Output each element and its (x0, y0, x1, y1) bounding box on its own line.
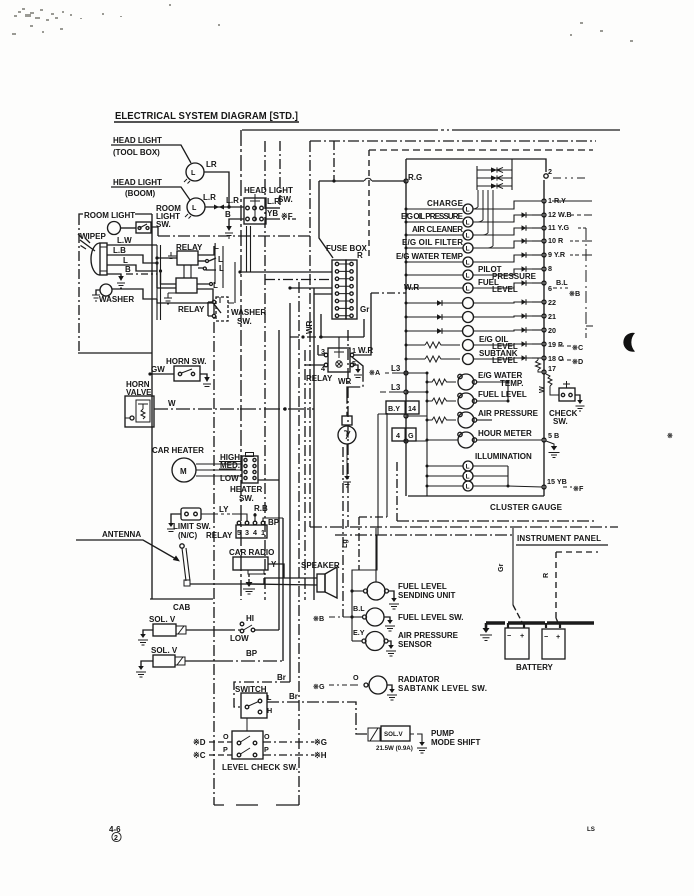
wire illumination to terminal 15 (508, 486, 542, 487)
svg-text:※H: ※H (314, 751, 327, 760)
wiper motor (78, 234, 107, 275)
heater switch connector (230, 453, 279, 504)
svg-text:L: L (466, 273, 470, 280)
svg-text:WIPEP: WIPEP (80, 232, 106, 241)
svg-text:L.W: L.W (117, 236, 132, 245)
page number circled 2 (112, 832, 121, 842)
svg-text:R.G: R.G (408, 173, 422, 182)
wire vertical x348 (347, 330, 349, 527)
svg-text:L: L (466, 246, 470, 253)
room light label (79, 211, 152, 353)
radio relay connector 5341 (206, 521, 267, 540)
battery cell 1 (505, 628, 529, 659)
lamp E/G WATER TEMP (396, 252, 473, 267)
svg-text:L: L (466, 484, 470, 491)
svg-text:SW.: SW. (239, 494, 254, 503)
svg-text:L: L (466, 286, 470, 293)
wire between relays (184, 265, 191, 278)
svg-text:21: 21 (548, 312, 556, 321)
svg-text:L.B: L.B (113, 246, 126, 255)
wire L3 lower (380, 383, 408, 394)
svg-text:WASHER: WASHER (99, 295, 134, 304)
wire relay L bus b (234, 262, 236, 303)
svg-text:※D: ※D (572, 357, 583, 366)
svg-text:R: R (357, 251, 363, 260)
wire vertical bus x241 (240, 130, 242, 600)
node B wire into headlight switch (225, 210, 244, 238)
room light switch (136, 204, 181, 233)
crescent printing mark (623, 333, 635, 352)
svg-text:O: O (353, 673, 359, 682)
wire vertical bus x299 (298, 282, 300, 805)
svg-text:−: − (507, 631, 511, 640)
wire jog at y517 (359, 516, 387, 518)
bracket right of terminals 11-10-9 (552, 201, 593, 338)
air pressure sensor (352, 631, 459, 656)
svg-text:(N/C): (N/C) (178, 531, 197, 540)
wire vertical bus x265 (264, 141, 266, 600)
svg-text:B.Y: B.Y (388, 404, 400, 413)
svg-text:8: 8 (548, 264, 552, 273)
svg-text:CHARGE: CHARGE (427, 199, 464, 208)
svg-text:LOW: LOW (230, 634, 249, 643)
svg-text:L.R: L.R (203, 193, 216, 202)
ground at terminal 5 (546, 441, 554, 446)
ground under radio (243, 574, 255, 594)
svg-text:HEAD LIGHT: HEAD LIGHT (113, 178, 162, 187)
washer switch (208, 297, 266, 326)
svg-text:Br: Br (277, 673, 286, 682)
svg-text:CAR HEATER: CAR HEATER (152, 446, 204, 455)
head light (boom) label (111, 178, 190, 200)
svg-text:G: G (408, 431, 414, 440)
wire inner gauge bus x427 (426, 373, 428, 496)
svg-text:LIMIT SW.: LIMIT SW. (173, 522, 211, 531)
svg-text:※: ※ (667, 432, 673, 440)
svg-text:L: L (466, 260, 470, 267)
svg-text:L: L (192, 203, 197, 212)
svg-text:HI: HI (246, 614, 254, 623)
svg-text:SOL.V: SOL.V (384, 731, 403, 738)
wire Br to switch (234, 673, 290, 707)
wire R to battery (541, 552, 598, 625)
svg-text:AIR PRESSURE: AIR PRESSURE (478, 409, 539, 418)
lamp row 20 (405, 326, 557, 337)
relay lower contact right (197, 281, 218, 303)
lamp headlight toolbox (184, 160, 229, 207)
svg-text:9 Y.R: 9 Y.R (548, 250, 566, 259)
svg-text:BP: BP (246, 649, 258, 658)
svg-text:B.L: B.L (556, 278, 568, 287)
svg-text:19 P: 19 P (548, 340, 563, 349)
svg-text:FUEL LEVEL SW.: FUEL LEVEL SW. (398, 613, 464, 622)
svg-text:L: L (466, 233, 470, 240)
svg-text:W: W (168, 399, 176, 408)
svg-text:SENDING UNIT: SENDING UNIT (398, 591, 455, 600)
wire relay L bus a (222, 246, 224, 288)
fuse box (332, 251, 369, 319)
cigarette lighter (338, 357, 363, 487)
svg-text:L3: L3 (391, 364, 401, 373)
svg-text:MODE SHIFT: MODE SHIFT (431, 738, 480, 747)
svg-text:※B: ※B (313, 614, 324, 623)
wire level check right H (263, 751, 327, 760)
gauge AIR PRESSURE (426, 409, 539, 428)
svg-text:+: + (556, 632, 560, 641)
wire air pressure stub (477, 419, 493, 421)
svg-text:GW: GW (151, 365, 165, 374)
svg-text:SABTANK LEVEL SW.: SABTANK LEVEL SW. (398, 684, 487, 693)
gauge E/G WATER (426, 371, 524, 390)
lamp row 22 (405, 298, 557, 309)
svg-text:HEAD LIGHT: HEAD LIGHT (244, 186, 293, 195)
svg-text:※C: ※C (193, 751, 206, 760)
wire vertical x343 to B.L (342, 447, 344, 617)
wire temp and fuel gauges tie (477, 382, 509, 401)
svg-text:P: P (223, 745, 228, 754)
svg-text:※F: ※F (573, 484, 584, 493)
relay lower (157, 263, 205, 314)
svg-text:CAR RADIO: CAR RADIO (229, 548, 274, 557)
svg-text:WASHER: WASHER (231, 308, 266, 317)
svg-text:TEMP.: TEMP. (500, 379, 523, 388)
svg-text:L: L (466, 207, 470, 214)
svg-text:5: 5 (237, 528, 241, 537)
svg-text:L3: L3 (391, 383, 401, 392)
svg-text:RELAY: RELAY (206, 531, 233, 540)
svg-text:Lg: Lg (340, 539, 349, 548)
svg-text:10 R: 10 R (548, 236, 564, 245)
fuse box label (326, 244, 368, 253)
illumination lamp y476 (426, 471, 509, 481)
svg-text:YB: YB (267, 209, 278, 218)
washer pump (92, 284, 213, 304)
svg-text:20: 20 (548, 326, 556, 335)
svg-text:※D: ※D (193, 738, 206, 747)
wire vertical bus x314 (313, 288, 315, 600)
wire lamp row to terminal 12 (473, 212, 546, 222)
svg-text:SW.: SW. (278, 195, 293, 204)
svg-text:4: 4 (253, 528, 257, 537)
battery ground (480, 623, 492, 641)
antenna label and leader (76, 530, 180, 562)
illumination lamp y486 (426, 481, 509, 491)
wire lamp row to terminal 10 (473, 238, 546, 248)
svg-text:O: O (223, 732, 229, 741)
svg-text:22: 22 (548, 298, 556, 307)
svg-text:SENSOR: SENSOR (398, 640, 432, 649)
wire lamp row to terminal 1 (473, 199, 546, 209)
lamp E/G OIL FILTER (402, 238, 473, 253)
wire verticals below headlight sw (247, 226, 251, 272)
svg-text:15 YB: 15 YB (547, 477, 567, 486)
fuse box input wires (238, 270, 332, 294)
wire loop fuse box to relay (290, 314, 364, 348)
illumination lamp y466 (426, 461, 509, 471)
svg-text:3: 3 (245, 528, 249, 537)
lamp row 19 E/G OIL LEVEL (405, 335, 563, 351)
svg-text:WR: WR (338, 377, 352, 386)
wire L3 upper with A (369, 364, 408, 377)
wire level check right G (263, 738, 327, 747)
wiper wires L.W L.B L B (107, 236, 161, 320)
cluster gauge left bus (405, 159, 407, 496)
svg-text:17: 17 (548, 364, 556, 373)
svg-text:B.L: B.L (353, 604, 365, 613)
svg-text:12 W.B: 12 W.B (548, 210, 572, 219)
cab boundary left (78, 214, 152, 599)
svg-text:P: P (264, 745, 269, 754)
horn valve (125, 380, 154, 427)
check switch (537, 374, 585, 426)
svg-text:E.Y: E.Y (353, 628, 365, 637)
svg-text:L: L (466, 474, 470, 481)
solenoid valve 2 (136, 646, 283, 677)
svg-text:※F: ※F (281, 212, 293, 221)
svg-text:LOW: LOW (220, 474, 239, 483)
wire top bus line B (310, 140, 596, 142)
svg-text:(BOOM): (BOOM) (125, 189, 156, 198)
svg-text:LY: LY (219, 505, 229, 514)
head light (tool box) label (111, 136, 191, 163)
svg-text:1: 1 (261, 528, 265, 537)
switch HI/LOW (230, 614, 279, 643)
lamp row 18 SUBTANK LEVEL (405, 349, 564, 365)
svg-text:※C: ※C (572, 343, 583, 352)
speaker wires (250, 578, 317, 585)
wire washer sw to relay outputs (219, 297, 221, 303)
svg-text:Gr: Gr (360, 305, 369, 314)
relay upper contacts right (198, 242, 224, 273)
wire vertical bus x283 (282, 518, 284, 661)
svg-text:HEATER: HEATER (230, 485, 263, 494)
svg-text:E/G WATER TEMP: E/G WATER TEMP (396, 252, 464, 261)
switch (level) (235, 685, 272, 718)
resistor subtank to terminal 17 (536, 358, 543, 372)
radiator subtank level switch (313, 673, 487, 700)
svg-text:L: L (267, 693, 272, 702)
wire Gr to battery (496, 528, 523, 624)
solenoid valve 1 (138, 615, 230, 645)
svg-text:6: 6 (548, 284, 552, 293)
svg-text:CLUSTER GAUGE: CLUSTER GAUGE (490, 503, 563, 512)
svg-text:LEVEL: LEVEL (492, 356, 518, 365)
relay upper (155, 243, 203, 273)
heater switch labels (219, 453, 242, 483)
svg-text:FUEL LEVEL: FUEL LEVEL (398, 582, 447, 591)
svg-text:R: R (541, 572, 550, 578)
car heater motor (152, 446, 242, 482)
wire W from horn valve (154, 399, 314, 411)
relay (main) (305, 345, 373, 386)
svg-text:WR: WR (305, 320, 314, 334)
svg-text:SW.: SW. (237, 317, 252, 326)
diode box drop wires (478, 190, 493, 246)
svg-text:RELAY: RELAY (306, 374, 333, 383)
wire top bus line C (369, 149, 593, 151)
cluster gauge right bus (543, 180, 545, 496)
svg-text:Gr: Gr (496, 563, 505, 572)
svg-text:※G: ※G (314, 738, 327, 747)
svg-text:LS: LS (587, 826, 595, 833)
gauge HOUR METER (426, 429, 533, 448)
lamp PILOT PRESSURE (405, 265, 537, 281)
svg-text:HOUR METER: HOUR METER (478, 429, 532, 438)
wire BP from relay pin1 (263, 518, 283, 527)
wire vertical headlight sw out x280 top (279, 141, 281, 208)
wire vertical bus x310 instrument panel edge (309, 141, 311, 527)
svg-text:M: M (180, 467, 187, 476)
lamp FUEL LEVEL (405, 278, 518, 294)
wire lamp row to terminal 11 (473, 225, 546, 235)
wire hour meter to terminal 5 (477, 439, 543, 441)
svg-text:※A: ※A (369, 368, 380, 377)
svg-text:SW.: SW. (553, 417, 568, 426)
svg-text:B: B (125, 265, 131, 274)
wire lamp row to terminal 8 (473, 266, 546, 275)
svg-text:+: + (520, 631, 524, 640)
terminal 17 (542, 370, 546, 374)
svg-text:L: L (219, 264, 224, 273)
battery cell 2 (542, 629, 565, 659)
svg-text:ELECTRICAL SYSTEM DIAGRAM [STD: ELECTRICAL SYSTEM DIAGRAM [STD.] (115, 111, 298, 122)
svg-text:HORN SW.: HORN SW. (166, 357, 206, 366)
svg-text:HEAD LIGHT: HEAD LIGHT (113, 136, 162, 145)
svg-text:W.R: W.R (404, 283, 419, 292)
svg-text:RADIATOR: RADIATOR (398, 675, 440, 684)
room light lamp (108, 222, 137, 235)
svg-text:PUMP: PUMP (431, 729, 455, 738)
svg-text:L.R: L.R (267, 197, 280, 206)
illumination right tie (507, 466, 509, 486)
svg-text:BATTERY: BATTERY (516, 663, 554, 672)
horn switch (148, 357, 211, 387)
connector box B.Y 14 (386, 401, 419, 418)
svg-text:L.R: L.R (226, 196, 239, 205)
ground under wiper B (117, 276, 125, 288)
car radio (229, 548, 284, 578)
svg-text:4: 4 (396, 431, 400, 440)
lamp headlight boom (185, 193, 216, 219)
svg-text:2: 2 (548, 167, 552, 176)
svg-text:B: B (225, 210, 231, 219)
svg-text:※G: ※G (313, 682, 325, 691)
wire lamp row to terminal 6 (473, 280, 546, 288)
fuel level sending unit (350, 582, 455, 609)
speaker (301, 561, 340, 598)
svg-text:LR: LR (206, 160, 217, 169)
speckle noise top left (12, 4, 633, 42)
wire B.L / B (313, 604, 365, 623)
svg-text:ROOM LIGHT: ROOM LIGHT (84, 211, 135, 220)
cluster gauge top edge (406, 159, 546, 172)
instrument panel border bottom (310, 527, 618, 545)
lamp E/G OIL PRESSURE (401, 212, 473, 227)
fuse box dashed enclosure edge (368, 150, 370, 259)
svg-text:AIR CLEANER: AIR CLEANER (412, 225, 463, 234)
level check switch (222, 718, 298, 772)
lamp CHARGE (405, 199, 474, 214)
svg-text:SOL. V: SOL. V (151, 646, 178, 655)
svg-text:ILLUMINATION: ILLUMINATION (475, 452, 532, 461)
wire vertical bus x279 (278, 330, 280, 630)
connector box 4 G (392, 428, 416, 443)
svg-text:L: L (218, 255, 223, 264)
wire level check left D (193, 738, 232, 747)
svg-text:18 O: 18 O (548, 354, 564, 363)
fuel level switch (352, 608, 464, 631)
title (114, 111, 299, 122)
svg-text:AIR PRESSURE: AIR PRESSURE (398, 631, 459, 640)
svg-text:ANTENNA: ANTENNA (102, 530, 141, 539)
terminal 2 (544, 174, 548, 178)
limit switch (167, 508, 211, 540)
svg-text:2: 2 (114, 835, 118, 842)
gauge FUEL LEVEL (426, 390, 527, 409)
wire level check left C (193, 751, 232, 760)
svg-text:(TOOL BOX): (TOOL BOX) (113, 148, 160, 157)
svg-text:L: L (466, 464, 470, 471)
svg-text:RELAY: RELAY (178, 305, 205, 314)
wire Lg riser to senders (352, 535, 377, 641)
head light switch HEAD LIGHT SW. (244, 186, 296, 224)
svg-text:5 B: 5 B (548, 431, 559, 440)
lamp row 21 (405, 312, 557, 323)
pump mode shift solenoid (368, 726, 480, 753)
svg-text:※B: ※B (569, 289, 580, 298)
wire room light sw feed (151, 227, 158, 236)
svg-text:21.5W (0.9A): 21.5W (0.9A) (376, 745, 413, 752)
svg-text:L: L (123, 256, 128, 265)
svg-text:FUEL LEVEL: FUEL LEVEL (478, 390, 527, 399)
antenna rod (180, 544, 264, 586)
svg-text:L: L (191, 168, 196, 177)
wire LY limit sw to relay pin (201, 505, 247, 522)
cluster gauge bottom borders (397, 496, 595, 521)
svg-text:R.B: R.B (254, 504, 268, 513)
cab boundary bottom (150, 598, 213, 600)
wire lamp row to terminal 9 (473, 252, 546, 262)
wire top bus line A (242, 129, 620, 131)
svg-text:E/G OIL PRESSURE: E/G OIL PRESSURE (401, 212, 464, 221)
svg-text:L: L (466, 220, 470, 227)
wire from B.Y box down pair (378, 413, 387, 535)
svg-text:O: O (264, 732, 270, 741)
svg-text:CAB: CAB (173, 603, 191, 612)
wire drop to fuel sending unit (375, 528, 377, 582)
wire R.B (253, 504, 268, 522)
svg-text:14: 14 (408, 404, 416, 413)
svg-text:H: H (267, 706, 272, 715)
wire L contact bus (214, 249, 216, 284)
svg-text:W: W (537, 386, 546, 393)
wire W.R relay to cluster (354, 283, 419, 355)
svg-text:11 Y.G: 11 Y.G (548, 223, 569, 232)
wire boom lamp to headlight switch with connector (205, 196, 244, 210)
wire vertical bus x290 (289, 303, 291, 682)
bottom dashed border of sub-box (214, 804, 299, 806)
svg-text:−: − (544, 632, 548, 641)
wire Br switch to pump (267, 692, 368, 734)
wire vertical bus x305 (304, 350, 306, 600)
wire vertical bus x214 (213, 303, 215, 805)
diode box top (477, 159, 512, 190)
svg-text:LEVEL CHECK SW.: LEVEL CHECK SW. (222, 763, 298, 772)
wire cluster border corner (396, 462, 398, 521)
battery bus bar (486, 623, 594, 628)
lamp AIR CLEANER (405, 225, 474, 240)
svg-text:Br: Br (289, 692, 298, 701)
